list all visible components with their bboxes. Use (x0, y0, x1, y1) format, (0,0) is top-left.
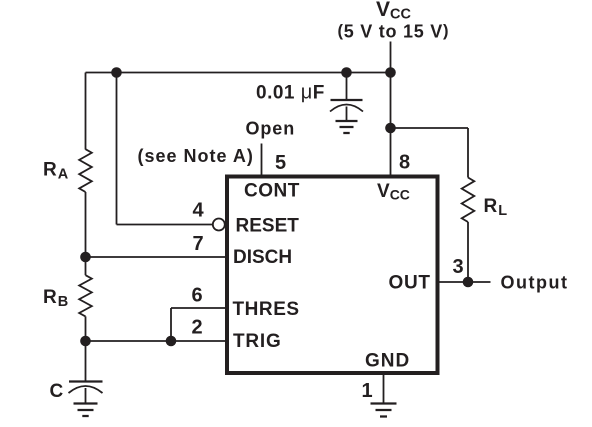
svg-text:4: 4 (193, 200, 205, 222)
svg-text:TRIG: TRIG (233, 331, 282, 352)
svg-text:DISCH: DISCH (233, 247, 292, 268)
wire RB bottom lead (85, 316, 87, 341)
svg-text:0.01 μF: 0.01 μF (256, 82, 325, 104)
wire reset horizontal to pin 4 (117, 224, 213, 226)
svg-text:RESET: RESET (236, 216, 300, 237)
wire RA bottom lead (85, 192, 87, 257)
resistor RL (462, 178, 475, 223)
wire THRES tap vertical (170, 308, 172, 341)
pin 4 RESET bubble (213, 219, 225, 231)
svg-text:7: 7 (193, 233, 204, 255)
svg-text:Output: Output (501, 273, 569, 293)
svg-text:Open: Open (246, 119, 296, 139)
ground bypass cap (336, 121, 358, 133)
wire THRES pin 6 (171, 307, 227, 309)
svg-text:GND: GND (365, 351, 410, 372)
wire reset tap vertical (116, 73, 118, 225)
wire RL bottom lead (467, 222, 469, 282)
ground C (74, 404, 98, 417)
node junction TRIG/THRES (166, 336, 177, 347)
resistor RA (79, 149, 92, 192)
node junction RB/C/TRIG (80, 336, 91, 347)
capacitor 0.01uF plates (331, 99, 363, 101)
wire CONT pin 5 lead (261, 144, 263, 176)
node junction RA/RB/DISCH (80, 252, 91, 263)
svg-text:3: 3 (453, 256, 464, 278)
svg-text:RA: RA (43, 160, 69, 183)
svg-text:2: 2 (192, 317, 203, 339)
svg-text:VCC: VCC (376, 0, 411, 23)
svg-text:THRES: THRES (233, 299, 300, 320)
capacitor C plates (69, 380, 103, 382)
node junction rail/bypass cap (341, 67, 352, 78)
ground GND pin (371, 404, 397, 417)
wire RL top lead (467, 128, 469, 178)
wire C top lead (85, 341, 87, 382)
wire C to ground (85, 388, 87, 403)
wire DISCH pin 7 (86, 256, 228, 258)
node junction rail/Vcc stem (385, 67, 396, 78)
svg-text:6: 6 (192, 285, 203, 307)
node junction OUT/RL (463, 277, 474, 288)
node junction Vcc/RL branch (385, 123, 396, 134)
svg-text:VCC: VCC (377, 181, 410, 203)
svg-text:5: 5 (275, 152, 286, 174)
resistor RB (79, 275, 92, 316)
wire bypass cap to ground (346, 107, 348, 121)
wire RA top lead (85, 73, 87, 150)
svg-text:OUT: OUT (389, 273, 431, 294)
svg-text:RL: RL (484, 196, 508, 219)
wire Vcc down to pin 8 (390, 73, 392, 176)
svg-text:1: 1 (362, 380, 373, 402)
wire Vcc stem from label (390, 42, 392, 73)
wire top supply rail (86, 72, 391, 74)
wire TRIG pin 2 (86, 340, 228, 342)
wire RL branch horizontal (391, 127, 469, 129)
svg-text:C: C (50, 381, 64, 402)
wire RB top lead (85, 257, 87, 275)
svg-text:(see Note A): (see Note A) (138, 146, 254, 166)
node junction rail/reset (111, 67, 122, 78)
svg-text:CONT: CONT (244, 181, 300, 202)
wire bypass cap lead (346, 73, 348, 100)
wire GND pin 1 lead (383, 374, 385, 403)
svg-text:8: 8 (399, 152, 410, 174)
svg-text:RB: RB (43, 287, 68, 310)
wire OUT pin 3 to Output (439, 281, 491, 283)
svg-text:(5 V to 15 V): (5 V to 15 V) (338, 22, 450, 42)
IC U1 555 timer box (227, 177, 438, 374)
